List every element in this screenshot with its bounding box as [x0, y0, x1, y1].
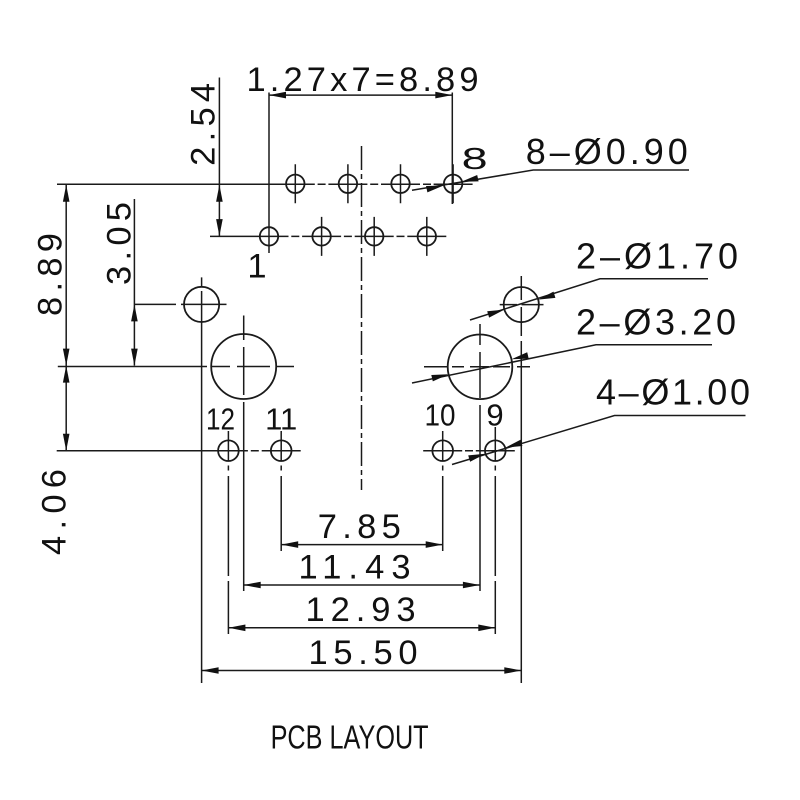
svg-text:8.89: 8.89: [32, 233, 70, 316]
extension line pin8 column: [451, 93, 453, 205]
right 3.20mm hole circle: [448, 335, 513, 400]
pin 10 pad circle: [432, 440, 453, 461]
bottom pins horizontal centerline dashes: [251, 450, 515, 452]
leader 2-dia1.70 arrows at right hole: [538, 292, 555, 300]
svg-text:15.50: 15.50: [309, 634, 418, 672]
svg-text:PCB LAYOUT: PCB LAYOUT: [271, 719, 429, 756]
svg-text:12: 12: [206, 402, 235, 437]
pin 11 vertical centerline to 7.85: [280, 431, 282, 551]
dimension 1.27x7=8.89 left arrow: [269, 92, 286, 99]
svg-text:8–Ø0.90: 8–Ø0.90: [526, 131, 688, 172]
svg-text:11: 11: [265, 402, 297, 437]
svg-text:8: 8: [462, 141, 488, 176]
extension line pin1 column: [268, 93, 270, 254]
left 3.20mm hole circle: [211, 334, 276, 399]
svg-text:2.54: 2.54: [185, 83, 223, 166]
pin 5 pad circle bottom row: [365, 227, 383, 245]
pin 4 pad circle top row: [339, 175, 357, 193]
leader 2-dia3.20 line: [412, 345, 712, 383]
leader 2-dia1.70 line: [470, 279, 708, 320]
dimension 15.50 line: [202, 670, 522, 672]
svg-text:2–Ø3.20: 2–Ø3.20: [576, 302, 736, 343]
svg-text:3.05: 3.05: [101, 202, 139, 285]
left big circle horizontal centerline dashes: [212, 366, 294, 368]
dimension 8.89/4.06 vertical line: [65, 185, 67, 451]
pin 9 pad circle: [485, 440, 506, 461]
dimension 4.06 down arrow: [63, 434, 70, 451]
dimension 8.89 down arrow: [63, 349, 70, 366]
extension line y=366.5 left row: [58, 366, 207, 368]
leader 4-dia1.00 line: [452, 416, 746, 465]
svg-text:4.06: 4.06: [36, 469, 74, 555]
dimension 8.89 up arrow: [63, 185, 70, 202]
bottom row pin vertical crosses: [322, 217, 427, 256]
leader 4-dia1.00 arrows at pin 9: [505, 440, 522, 448]
svg-text:10: 10: [425, 398, 456, 433]
svg-text:2–Ø1.70: 2–Ø1.70: [576, 236, 738, 277]
left big circle vertical centerline dash-dot: [243, 316, 245, 431]
dimension 12.93 arrows: [228, 625, 245, 632]
pin 2 pad circle top row: [286, 175, 304, 193]
pin 6 pad circle top row: [391, 175, 409, 193]
pin 12 pad circle: [218, 440, 239, 461]
leader 8-dia0.90 arrows at pin 8: [461, 175, 478, 182]
svg-text:1: 1: [247, 248, 266, 286]
top row pin vertical crosses: [295, 164, 453, 203]
leader 2-dia3.20 arrows at right big hole: [511, 352, 528, 359]
bottom row horizontal centerline: [210, 235, 446, 237]
dimension 3.05 up arrow: [131, 304, 138, 321]
left 1.70mm hole circle: [184, 287, 219, 322]
main vertical centerline: [361, 146, 363, 490]
dimension 1.27x7=8.89 line: [269, 94, 452, 96]
svg-text:12.93: 12.93: [306, 591, 416, 629]
dimension 1.27x7=8.89 right arrow: [435, 92, 452, 99]
left 1.70 hole horizontal centerline: [134, 303, 226, 305]
svg-text:9: 9: [486, 398, 503, 433]
pin 10 vertical centerline to 7.85: [442, 431, 444, 551]
dimension 7.85 line: [281, 544, 443, 546]
dimension 4.06 up arrow: [63, 366, 70, 383]
right big circle extension to 11.43: [479, 430, 481, 591]
svg-text:7.85: 7.85: [318, 508, 401, 546]
dimension 11.43 line: [244, 584, 480, 586]
right big circle vertical centerline dash-dot: [479, 324, 481, 430]
right 1.70mm hole circle: [504, 287, 539, 322]
left big circle extension to 11.43: [243, 430, 245, 591]
right big circle horizontal centerline dashes: [424, 366, 530, 368]
pin 7 pad circle bottom row: [418, 227, 436, 245]
dimension 11.43 arrows: [244, 582, 261, 589]
dimension 15.50 arrows: [202, 667, 219, 674]
leader 8-dia0.90 line: [412, 170, 689, 190]
extension line y=450.7 left solid: [57, 450, 248, 452]
right 1.70 hole horizontal centerline: [500, 304, 544, 306]
dimension 12.93 line: [228, 627, 495, 629]
pin 11 pad circle: [271, 440, 292, 461]
dimension 3.05 line: [133, 199, 135, 366]
right 1.70 hole vertical centerline and 15.50 extension: [520, 276, 522, 683]
pin 3 pad circle bottom row: [312, 227, 330, 245]
pin 8 pad circle top row: [444, 175, 462, 193]
svg-text:4–Ø1.00: 4–Ø1.00: [596, 372, 750, 413]
top row centerline dashes through pins: [276, 183, 473, 185]
dimension 2.54 line: [218, 78, 220, 237]
dimension 2.54 up arrow: [216, 185, 223, 202]
pin 12 vertical centerline to 12.93: [227, 431, 229, 634]
left 1.70 hole vertical line and 15.50 extension: [201, 277, 203, 683]
dimension 3.05 down arrow: [131, 349, 138, 366]
dimension 2.54 down arrow: [216, 219, 223, 236]
pin 9 vertical centerline to 12.93: [494, 427, 496, 634]
pin 1 pad circle bottom row: [260, 227, 278, 245]
dimension 7.85 arrows: [281, 541, 298, 548]
top row horizontal centerline solid left part: [57, 183, 276, 185]
